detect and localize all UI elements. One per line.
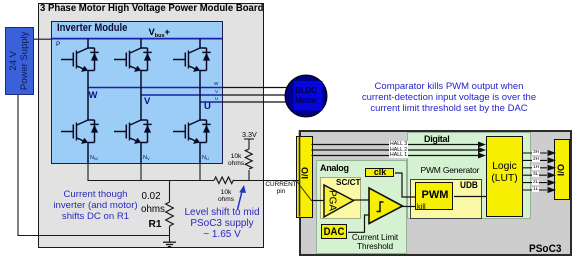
svg-text:Motor: Motor <box>295 96 317 105</box>
svg-text:BLDC: BLDC <box>295 86 317 95</box>
